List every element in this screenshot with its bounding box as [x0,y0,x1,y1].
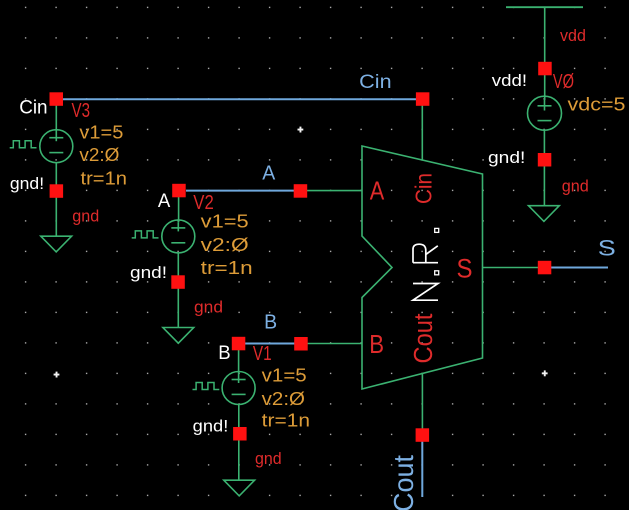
ground symbol V0 [529,206,560,222]
svg-text:gnd!: gnd! [193,416,229,435]
symbol text N. R. (rotated, stroke-drawn) [413,228,439,300]
wire S (blue horizontal) [551,267,608,269]
svg-text:B: B [264,311,277,333]
V1 top stub wire [238,349,240,374]
svg-text:A: A [262,162,276,184]
pin square V2 output / net A [172,184,186,198]
svg-text:vdd!: vdd! [492,71,527,90]
full-adder symbol I0 outline [362,146,483,389]
svg-text:gnd!: gnd! [10,174,44,193]
svg-text:B: B [369,331,384,359]
svg-text:S: S [457,254,473,284]
svg-text:Cout: Cout [388,455,419,510]
V2 bottom stub wire to ground [177,253,179,328]
pin stub B [307,343,362,345]
svg-text:Cout: Cout [410,314,438,364]
svg-text:gnd: gnd [194,298,223,317]
wire A (blue horizontal) [186,190,295,192]
pin square V1 output / net B [232,337,246,351]
pin square junction Cout [416,428,430,442]
svg-text:gnd: gnd [72,206,99,225]
pin square junction Cin at symbol top [416,92,430,106]
svg-text:Cin: Cin [359,71,391,93]
svg-text:v2:Ø: v2:Ø [201,234,249,255]
svg-text:gnd: gnd [562,176,589,195]
svg-text:A: A [158,191,171,212]
origin marker cross 2 [54,372,60,378]
wire Cin (blue horizontal) [63,98,417,100]
svg-text:tr=1n: tr=1n [262,410,310,431]
V1 minus sign [232,393,246,395]
svg-text:V1: V1 [253,343,272,365]
vsource V0 (vdc) circle [528,96,562,130]
wire B (blue horizontal) [245,343,295,345]
V2 plus sign [171,222,185,231]
svg-text:V3: V3 [72,100,91,122]
vsource V1 (vpulse) circle [222,372,255,405]
svg-text:vdd: vdd [560,26,586,45]
origin marker cross 1 [298,127,304,133]
svg-text:v1=5: v1=5 [262,365,307,386]
vsource V3 (vpulse) circle [40,130,73,163]
pin stub S [483,267,540,269]
ground symbol V2 [163,328,194,344]
svg-text:S: S [598,236,616,261]
V2 pulse waveform glyph [132,231,159,238]
svg-text:v2:Ø: v2:Ø [79,144,119,165]
pin square V3 gnd [50,184,64,198]
svg-text:Cin: Cin [411,173,437,204]
pin square V2 gnd [171,275,185,289]
pin square V1 gnd [233,427,247,441]
V3 top stub wire [55,104,57,132]
pin square V0 gnd [538,153,552,167]
svg-text:gnd!: gnd! [488,148,525,167]
V1 bottom stub wire to ground [238,404,240,480]
V3 minus sign [49,152,63,154]
ground symbol V1 [224,480,255,496]
V2 top stub wire [178,196,180,222]
svg-text:B: B [218,343,230,364]
svg-text:gnd!: gnd! [130,263,167,282]
svg-text:v1=5: v1=5 [201,211,249,232]
V0 bottom stub wire to ground [543,130,545,206]
pin stub A [306,190,362,192]
V1 pulse waveform glyph [193,383,220,390]
V3 pulse waveform glyph [10,141,37,148]
pin square junction B at symbol [294,337,308,351]
vdd rail bar [506,6,583,8]
V0 minus sign [538,120,552,122]
svg-text:VØ: VØ [553,71,574,93]
V3 plus sign [49,132,63,141]
pin stub Cin (vertical) [421,105,423,161]
vsource V2 (vpulse) circle [162,220,195,253]
svg-text:tr=1n: tr=1n [201,257,253,278]
svg-text:vdc=5: vdc=5 [568,93,626,114]
pin square junction S [538,261,552,275]
origin marker cross 3 [542,370,548,376]
ground symbol V3 [41,236,72,252]
V0 plus sign [538,100,552,111]
svg-text:gnd: gnd [255,449,282,468]
V2 minus sign [171,242,185,244]
V1 plus sign [232,374,246,383]
svg-text:v1=5: v1=5 [79,122,123,143]
svg-text:A: A [370,178,385,206]
svg-text:Cin: Cin [19,97,47,118]
svg-text:tr=1n: tr=1n [81,168,128,189]
pin square junction A at symbol [294,184,308,198]
V0 top stub wire [544,74,546,100]
pin square V0 vdd [538,62,552,76]
svg-text:v2:Ø: v2:Ø [262,388,305,409]
vdd rail stub down [544,7,546,63]
V3 bottom stub wire to ground [55,163,57,237]
wire Cout (blue vertical) [421,442,423,498]
pin square V3 output / net Cin [50,92,64,106]
pin stub Cout (vertical) [421,374,423,431]
